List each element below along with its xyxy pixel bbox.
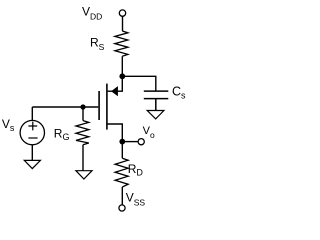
ground (RG) bbox=[76, 171, 92, 179]
node B (gate / RG junction) bbox=[80, 104, 85, 109]
Q1 drain lead bbox=[107, 124, 122, 142]
wire node Vo to RD bbox=[121, 142, 123, 159]
node Vo (drain junction) bbox=[119, 139, 125, 145]
terminal VDD bbox=[119, 10, 125, 16]
ground (CS) bbox=[147, 111, 164, 119]
wire VS top bbox=[31, 107, 33, 121]
wire RS to node A bbox=[121, 56, 123, 76]
wire node A to CS bbox=[122, 76, 156, 91]
wire RG to ground bbox=[82, 145, 84, 171]
Q1 source lead bbox=[108, 76, 123, 91]
wire to Vo terminal bbox=[122, 141, 138, 143]
Q1 channel bar bbox=[106, 84, 108, 130]
wire RD to VSS terminal bbox=[121, 187, 123, 205]
wire node B to RG bbox=[82, 107, 84, 121]
source VS bbox=[20, 120, 44, 144]
terminal Vo bbox=[138, 139, 144, 145]
Q1 gate bar bbox=[98, 91, 100, 120]
transistor Q1 (PMOS) bbox=[99, 76, 122, 141]
resistor RD bbox=[115, 158, 128, 187]
wire gate bbox=[32, 106, 98, 108]
wire VDD to RS bbox=[122, 17, 124, 32]
resistor RG bbox=[76, 121, 89, 145]
Q1 source arrow bbox=[112, 87, 118, 96]
capacitor CS bbox=[144, 91, 169, 110]
terminal VSS bbox=[119, 205, 125, 211]
resistor RS bbox=[115, 31, 128, 56]
node A (source junction) bbox=[119, 73, 125, 79]
ground (VS) bbox=[24, 160, 40, 168]
wire VS bottom bbox=[31, 145, 33, 161]
